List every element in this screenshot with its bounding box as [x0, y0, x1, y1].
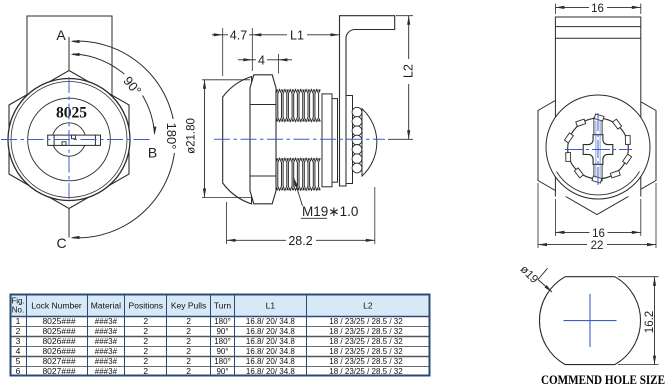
svg-text:16.8/ 20/ 34.8: 16.8/ 20/ 34.8 [246, 357, 295, 366]
back washer plate [346, 96, 353, 184]
svg-text:2: 2 [16, 326, 21, 336]
dimension 4 [277, 54, 279, 74]
svg-text:###3#: ###3# [95, 357, 118, 366]
svg-text:18 / 23/25 / 28.5 / 32: 18 / 23/25 / 28.5 / 32 [329, 337, 403, 346]
svg-text:L1: L1 [290, 28, 304, 42]
svg-text:Material: Material [91, 301, 121, 311]
svg-text:4: 4 [258, 53, 265, 67]
washer teeth [594, 114, 604, 121]
svg-text:No.: No. [12, 306, 24, 315]
front face outer circle [8, 79, 130, 201]
front view centerlines [1, 139, 151, 141]
svg-text:2: 2 [186, 346, 191, 356]
svg-text:16: 16 [591, 3, 604, 15]
side view lock head [223, 77, 252, 204]
front view hex body [9, 71, 129, 209]
position C mark [68, 209, 70, 238]
svg-text:2: 2 [186, 336, 191, 346]
cam tab strip [594, 118, 602, 182]
position A mark [68, 37, 70, 71]
svg-text:2: 2 [186, 366, 191, 376]
svg-text:8026###: 8026### [42, 346, 75, 356]
svg-text:L2: L2 [363, 301, 373, 311]
svg-text:###3#: ###3# [95, 317, 118, 326]
svg-text:2: 2 [186, 316, 191, 326]
back view body circle [546, 95, 650, 199]
threaded body lower band [278, 158, 282, 190]
svg-text:###3#: ###3# [95, 337, 118, 346]
svg-text:Fig.: Fig. [11, 297, 24, 306]
dimension L1 [252, 34, 339, 36]
svg-text:4.7: 4.7 [230, 28, 247, 42]
svg-text:90°: 90° [216, 327, 228, 336]
dimension L2 [396, 15, 413, 17]
svg-text:6: 6 [16, 366, 21, 376]
svg-text:16.8/ 20/ 34.8: 16.8/ 20/ 34.8 [246, 347, 295, 356]
svg-text:8025###: 8025### [42, 326, 75, 336]
front face chamfer circle [11, 82, 127, 198]
svg-text:18 / 23/25 / 28.5 / 32: 18 / 23/25 / 28.5 / 32 [329, 327, 403, 336]
svg-text:Key Pulls: Key Pulls [171, 301, 206, 311]
stop washer step [332, 99, 338, 183]
svg-text:16.8/ 20/ 34.8: 16.8/ 20/ 34.8 [246, 337, 295, 346]
svg-text:COMMEND HOLE SIZE: COMMEND HOLE SIZE [541, 372, 665, 387]
svg-text:16: 16 [592, 228, 605, 240]
side view hex nut [250, 75, 276, 204]
svg-text:16.8/ 20/ 34.8: 16.8/ 20/ 34.8 [246, 317, 295, 326]
svg-text:ø21.80: ø21.80 [186, 118, 198, 154]
key slot [48, 135, 101, 145]
dimension 4.7 [222, 28, 224, 76]
svg-text:18 / 23/25 / 28.5 / 32: 18 / 23/25 / 28.5 / 32 [329, 347, 403, 356]
svg-text:2: 2 [143, 316, 148, 326]
svg-text:180°: 180° [164, 123, 179, 150]
svg-text:Lock Number: Lock Number [31, 301, 82, 311]
dome cap [362, 109, 377, 176]
cam lever bracket [340, 16, 395, 186]
svg-text:Positions: Positions [129, 301, 164, 311]
svg-text:180°: 180° [214, 337, 231, 346]
parts table grid [11, 295, 430, 317]
svg-text:2: 2 [186, 356, 191, 366]
svg-text:2: 2 [186, 326, 191, 336]
recommended hole outline [539, 277, 640, 365]
svg-text:2: 2 [143, 366, 148, 376]
svg-text:2: 2 [143, 346, 148, 356]
castellated washer ring circle [568, 118, 629, 179]
front view cam plate (behind hexagon) [27, 16, 112, 126]
svg-text:90°: 90° [216, 367, 228, 376]
svg-text:###3#: ###3# [95, 367, 118, 376]
svg-text:L2: L2 [402, 64, 416, 78]
svg-text:16.8/ 20/ 34.8: 16.8/ 20/ 34.8 [246, 327, 295, 336]
side view centerline [214, 138, 385, 140]
svg-text:18 / 23/25 / 28.5 / 32: 18 / 23/25 / 28.5 / 32 [329, 317, 403, 326]
svg-text:1: 1 [16, 316, 21, 326]
svg-text:16.8/ 20/ 34.8: 16.8/ 20/ 34.8 [246, 367, 295, 376]
svg-text:8027###: 8027### [42, 356, 75, 366]
svg-text:22: 22 [591, 240, 604, 252]
lock nut washer [322, 94, 332, 187]
svg-text:28.2: 28.2 [288, 234, 312, 248]
svg-text:18 / 23/25 / 28.5 / 32: 18 / 23/25 / 28.5 / 32 [329, 357, 403, 366]
svg-text:2: 2 [143, 326, 148, 336]
dimension 28.2 [226, 202, 228, 244]
svg-text:B: B [148, 145, 157, 161]
svg-text:8027###: 8027### [42, 366, 75, 376]
svg-text:L1: L1 [266, 301, 276, 311]
dimension 16 bottom [554, 199, 556, 236]
back view chamfer arc [557, 172, 640, 195]
svg-text:16.2: 16.2 [644, 311, 656, 333]
svg-text:###3#: ###3# [95, 327, 118, 336]
svg-text:A: A [56, 27, 66, 43]
key cylinder circle [52, 123, 85, 156]
dimension dia 21.80 [202, 79, 250, 81]
svg-text:180°: 180° [214, 357, 231, 366]
dimension 22 [537, 183, 539, 248]
svg-text:5: 5 [16, 356, 21, 366]
svg-text:18 / 23/25 / 28.5 / 32: 18 / 23/25 / 28.5 / 32 [329, 367, 403, 376]
svg-text:8025###: 8025### [42, 316, 75, 326]
hole centermark [564, 320, 617, 322]
svg-text:90°: 90° [216, 347, 228, 356]
back view hex body [538, 77, 656, 215]
svg-text:###3#: ###3# [95, 347, 118, 356]
svg-text:3: 3 [16, 336, 21, 346]
svg-text:C: C [56, 235, 66, 251]
180 degree rotation arc [72, 41, 175, 238]
thread spec M19x1.0 [294, 178, 303, 207]
back view cam plate [555, 17, 640, 197]
svg-text:2: 2 [143, 336, 148, 346]
svg-text:M19∗1.0: M19∗1.0 [302, 204, 358, 219]
svg-text:8026###: 8026### [42, 336, 75, 346]
svg-text:Turn: Turn [214, 301, 231, 311]
svg-text:8025: 8025 [56, 105, 87, 122]
dimension 16 top [554, 4, 556, 15]
threaded body upper band [278, 90, 282, 122]
key face circle [28, 98, 111, 181]
dimension dia 19 [538, 280, 552, 293]
cam driver cross [583, 135, 613, 165]
dimension 16.2 [618, 276, 659, 278]
svg-text:4: 4 [16, 346, 21, 356]
svg-text:2: 2 [143, 356, 148, 366]
90 degree rotation arc [73, 54, 155, 134]
wave spring washer [352, 107, 362, 117]
back view centerlines [597, 113, 599, 186]
svg-text:180°: 180° [214, 317, 231, 326]
